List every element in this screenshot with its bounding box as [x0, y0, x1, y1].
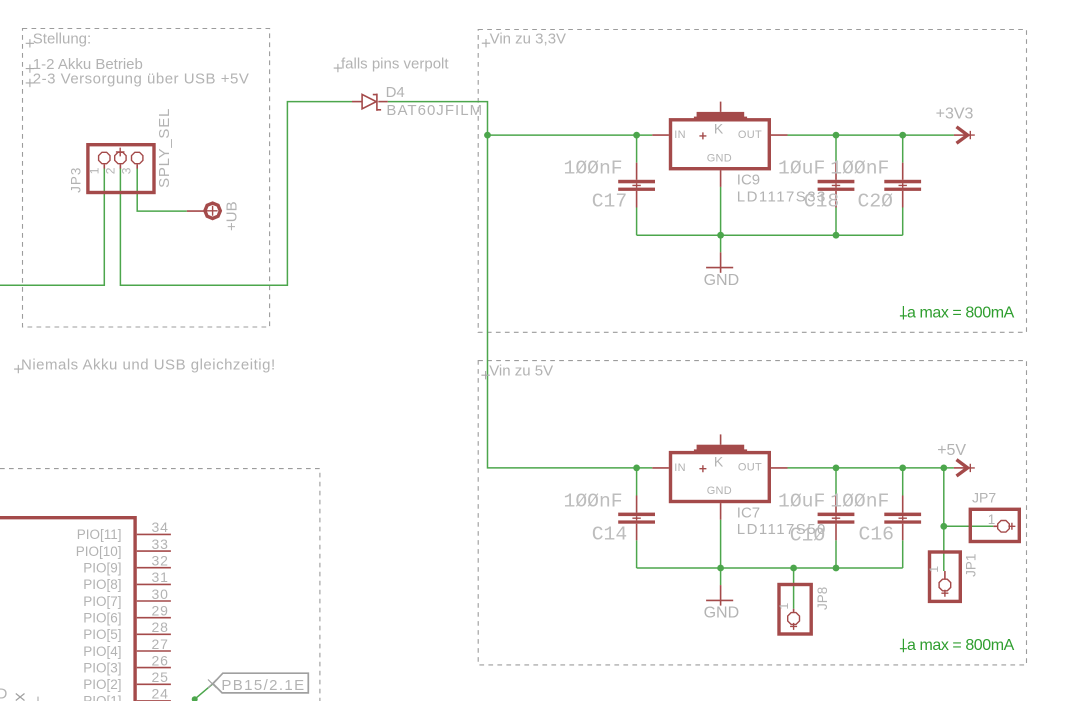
jumper JP7	[970, 509, 1019, 541]
svg-text:PIO[10]: PIO[10]	[76, 544, 122, 559]
junction GND rail 5V	[717, 565, 724, 572]
net flag partial bottom-left corner	[0, 686, 38, 701]
wire PB15 net to flag	[195, 684, 213, 700]
svg-text:PIO[1]: PIO[1]	[83, 694, 121, 701]
svg-text:33: 33	[152, 536, 169, 552]
svg-text:32: 32	[152, 553, 169, 569]
supply symbol +3V3 arrow	[954, 127, 975, 143]
svg-text:1ØØnF: 1ØØnF	[830, 158, 889, 180]
svg-text:JP3: JP3	[69, 167, 84, 193]
capacitor C20	[884, 163, 921, 208]
svg-text:28: 28	[152, 619, 169, 635]
svg-text:PIO[9]: PIO[9]	[83, 561, 121, 576]
svg-text:1ØØnF: 1ØØnF	[564, 490, 623, 512]
wire GND rail 5V	[637, 567, 903, 569]
wire C17 bottom	[636, 208, 638, 236]
junction C18 bottom	[833, 232, 840, 239]
U1 pin 32 stub	[137, 567, 171, 569]
wire C16 top	[902, 468, 904, 496]
capacitor C10	[818, 496, 855, 541]
svg-text:34: 34	[152, 519, 169, 535]
svg-text:PIO[6]: PIO[6]	[83, 611, 121, 626]
supply symbol +5V arrow	[954, 460, 975, 476]
svg-text:JP8: JP8	[815, 587, 830, 610]
junction C10 top	[833, 465, 840, 472]
wire C18 top	[835, 135, 837, 163]
junction JP8	[790, 565, 797, 572]
svg-text:falls pins verpolt: falls pins verpolt	[341, 55, 449, 72]
junction C18 top	[833, 132, 840, 139]
wire IC7 GND pin to rail and gnd symbol	[720, 520, 722, 585]
U1 pin 31 stub	[137, 583, 171, 585]
svg-text:PIO[5]: PIO[5]	[83, 627, 121, 642]
frame box Vin zu 3,3V	[478, 30, 1026, 333]
junction C10 bottom	[833, 565, 840, 572]
svg-text:PIO[8]: PIO[8]	[83, 577, 121, 592]
wire C17 top	[636, 135, 638, 163]
supply symbol +UB	[187, 203, 221, 218]
svg-text:C17: C17	[592, 191, 627, 213]
wire net +UB from JP3 pin3	[137, 168, 187, 211]
frame box bottom-left	[0, 469, 320, 701]
svg-text:C18: C18	[804, 191, 839, 213]
svg-text:Vin zu 3,3V: Vin zu 3,3V	[490, 30, 566, 47]
wire C10 bottom	[835, 540, 837, 568]
svg-text:31: 31	[152, 569, 169, 585]
capacitor C17	[618, 163, 655, 208]
svg-text:+5V: +5V	[937, 442, 966, 459]
svg-text:27: 27	[152, 636, 169, 652]
voltage regulator IC7	[652, 434, 787, 519]
wire GND rail 3V3	[637, 234, 903, 236]
junction at VIN/IC9-IN	[484, 132, 491, 139]
svg-text:2: 2	[103, 167, 117, 174]
junction GND rail 3V3	[717, 232, 724, 239]
capacitor C14	[618, 496, 655, 541]
svg-text:1ØuF: 1ØuF	[778, 490, 825, 512]
ground symbol GND 3V3	[706, 252, 733, 272]
wire net VIN diode cathode to regulators	[388, 102, 653, 468]
svg-text:PB15/2.1E: PB15/2.1E	[221, 677, 304, 694]
svg-text:1ØØnF: 1ØØnF	[564, 158, 623, 180]
svg-text:+3V3: +3V3	[936, 105, 974, 122]
wire to JP8	[793, 568, 795, 609]
svg-text:1: 1	[777, 603, 791, 610]
junction C17 top	[633, 132, 640, 139]
svg-text:1ØuF: 1ØuF	[778, 158, 825, 180]
svg-text:1: 1	[988, 512, 996, 527]
wire VIN branch to IC9 IN	[488, 134, 653, 136]
capacitor C18	[818, 163, 855, 208]
capacitor C16	[884, 496, 921, 541]
jumper JP1	[930, 552, 961, 601]
wire net SPLY pin2 to diode anode	[120, 102, 352, 286]
wire to JP7	[944, 525, 994, 527]
svg-text:SPLY_SEL: SPLY_SEL	[156, 108, 173, 188]
svg-text:1: 1	[927, 566, 941, 573]
wire C14 bottom	[636, 540, 638, 568]
svg-text:Stellung:: Stellung:	[33, 31, 91, 48]
svg-text:PIO[11]: PIO[11]	[77, 527, 122, 542]
U1 pin 33 stub	[137, 550, 171, 552]
U1 pin 27 stub	[137, 650, 171, 652]
wire C16 bottom	[902, 540, 904, 568]
voltage regulator IC9	[652, 102, 787, 187]
svg-text:1ØØnF: 1ØØnF	[830, 490, 889, 512]
svg-text:GND: GND	[707, 485, 732, 497]
svg-text:OUT: OUT	[738, 462, 762, 474]
wire C10 top	[835, 468, 837, 496]
svg-text:GND: GND	[704, 605, 740, 622]
U1 pin 26 stub	[137, 667, 171, 669]
svg-text:BAT60JFILM: BAT60JFILM	[386, 102, 482, 119]
svg-text:+UB: +UB	[224, 201, 241, 231]
svg-text:24: 24	[152, 686, 169, 701]
junction C16 top	[899, 465, 906, 472]
wire +5V branch down to JP7 and JP1	[943, 468, 945, 571]
junction C14 top	[633, 465, 640, 472]
svg-text:26: 26	[152, 652, 169, 668]
U1 pin 24 stub	[137, 700, 171, 701]
svg-text:Vin zu 5V: Vin zu 5V	[489, 362, 553, 379]
svg-text:PIO[7]: PIO[7]	[83, 594, 121, 609]
svg-text:K: K	[714, 454, 724, 470]
svg-text:JP1: JP1	[964, 554, 979, 577]
svg-text:GND: GND	[704, 272, 740, 289]
svg-text:IN: IN	[674, 462, 686, 474]
frame box Vin zu 5V	[478, 361, 1026, 665]
svg-text:GND: GND	[707, 152, 732, 164]
diode D4	[352, 94, 388, 111]
svg-text:K: K	[714, 121, 724, 137]
svg-text:PIO[4]: PIO[4]	[83, 644, 121, 659]
junction +5V branch	[940, 465, 947, 472]
wire net SPLY pin1 to left edge	[0, 168, 104, 285]
svg-text:JP7: JP7	[972, 490, 996, 506]
svg-text:1: 1	[87, 167, 101, 174]
wire net +5V rail	[788, 467, 954, 469]
svg-text:PIO[3]: PIO[3]	[83, 660, 121, 675]
svg-text:PIO[2]: PIO[2]	[83, 677, 121, 692]
svg-text:D: D	[0, 686, 8, 701]
svg-text:3: 3	[120, 167, 134, 174]
svg-text:C1Ø: C1Ø	[790, 525, 826, 547]
frame box comment region top-left	[23, 29, 270, 328]
U1 pin 29 stub	[137, 617, 171, 619]
svg-text:2-3 Versorgung über USB +5V: 2-3 Versorgung über USB +5V	[33, 70, 250, 87]
svg-text:29: 29	[152, 603, 169, 619]
junction PB15 wire end	[192, 696, 198, 701]
wire C20 top	[902, 135, 904, 163]
wire C14 top	[636, 468, 638, 496]
wire IC9 GND pin to rail and gnd symbol	[720, 187, 722, 252]
connector JP3	[88, 145, 154, 193]
wire C20 bottom	[902, 208, 904, 236]
wire net +3V3 rail	[788, 134, 954, 136]
svg-text:25: 25	[152, 669, 169, 685]
net flag PB15/2.1E	[208, 673, 308, 693]
junction C20 top	[899, 132, 906, 139]
IC U1 microcontroller box	[0, 518, 135, 701]
svg-text:IN: IN	[674, 129, 686, 141]
svg-text:C14: C14	[592, 524, 627, 546]
svg-text:a max = 800mA: a max = 800mA	[907, 637, 1015, 654]
jumper JP8	[779, 585, 811, 635]
svg-text:a max = 800mA: a max = 800mA	[907, 304, 1015, 321]
svg-text:D4: D4	[386, 84, 405, 101]
svg-text:IC9: IC9	[737, 172, 760, 189]
junction JP7 branch	[940, 523, 947, 530]
svg-text:C16: C16	[859, 524, 894, 546]
svg-text:C2Ø: C2Ø	[858, 191, 894, 213]
U1 pin 30 stub	[137, 600, 171, 602]
U1 pin 28 stub	[137, 633, 171, 635]
U1 pin 25 stub	[137, 683, 171, 685]
U1 pin 34 stub	[137, 533, 171, 535]
svg-text:Niemals Akku und USB gleichzei: Niemals Akku und USB gleichzeitig!	[21, 356, 276, 373]
ground symbol GND 5V	[706, 585, 733, 606]
svg-text:OUT: OUT	[738, 129, 762, 141]
svg-text:30: 30	[152, 586, 169, 602]
wire C18 bottom	[835, 208, 837, 236]
svg-text:IC7: IC7	[737, 505, 760, 522]
